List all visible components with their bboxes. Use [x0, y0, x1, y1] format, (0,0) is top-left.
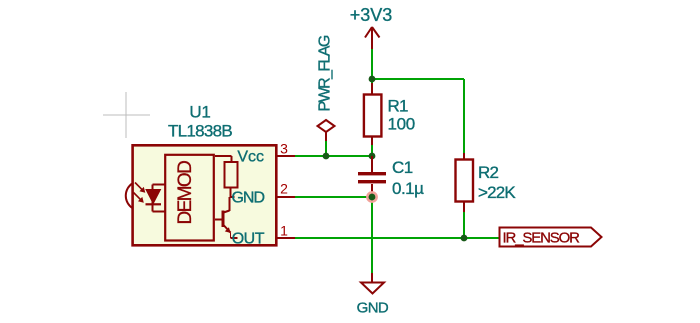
wire GND row pin2 to C1 bottom	[295, 196, 372, 198]
pin 1 OUT	[232, 223, 295, 248]
svg-text:R2: R2	[478, 163, 498, 182]
photodiode lens arc	[126, 183, 133, 208]
svg-text:IR_SENSOR: IR_SENSOR	[503, 230, 581, 247]
svg-text:3: 3	[280, 141, 288, 157]
wire +3V3 stem to junction	[371, 48, 373, 83]
svg-text:1: 1	[280, 223, 288, 239]
resistor R1	[364, 83, 415, 145]
svg-text:2: 2	[280, 181, 288, 197]
highlighted junction at C1/GND node	[367, 192, 376, 201]
svg-text:OUT: OUT	[232, 231, 265, 248]
wire R1 bottom to Vcc node	[371, 144, 373, 156]
svg-text:100: 100	[388, 115, 415, 134]
power symbol +3V3	[365, 27, 380, 49]
transistor Q internal	[215, 197, 238, 238]
wire Vcc row pin3 to C1 column	[295, 155, 372, 157]
junction at R2/OUT node	[461, 235, 468, 242]
pin 3 Vcc	[237, 141, 295, 166]
ground symbol GND	[361, 273, 384, 294]
junction at PWR_FLAG attach	[323, 153, 330, 160]
wire R2 top vertical	[463, 79, 465, 154]
wire R2 bottom to OUT row	[463, 211, 465, 238]
svg-text:PWR_FLAG: PWR_FLAG	[317, 35, 334, 111]
wire C1 bottom to GND symbol	[371, 197, 373, 274]
svg-text:0.1µ: 0.1µ	[392, 179, 424, 198]
svg-text:+3V3: +3V3	[350, 5, 393, 25]
resistor R2	[456, 153, 517, 212]
photodiode D	[146, 185, 165, 212]
wire PWR_FLAG stem	[325, 140, 327, 156]
DEMOD box	[165, 155, 214, 241]
svg-text:>22K: >22K	[478, 183, 516, 202]
wire OUT row pin1 to IR_SENSOR label	[295, 237, 499, 239]
svg-text:R1: R1	[388, 97, 408, 116]
svg-text:Vcc: Vcc	[237, 149, 264, 166]
svg-text:TL1838B: TL1838B	[168, 122, 232, 141]
hierarchical label IR_SENSOR	[500, 228, 602, 247]
pin 2 GND	[231, 181, 295, 207]
svg-text:C1: C1	[392, 158, 413, 177]
power flag PWR_FLAG	[318, 120, 335, 141]
svg-text:GND: GND	[231, 190, 264, 207]
wire top horizontal to R2	[372, 78, 464, 80]
svg-text:GND: GND	[357, 299, 389, 316]
junction at +3V3 node	[369, 76, 376, 83]
svg-text:U1: U1	[189, 103, 210, 122]
junction at Vcc node	[369, 153, 376, 160]
IR arrows into photodiode	[134, 183, 146, 203]
IC U1 outer body	[133, 145, 277, 245]
internal resistor	[215, 156, 238, 197]
cursor crosshair	[103, 92, 150, 138]
capacitor C1	[358, 156, 424, 198]
svg-text:DEMOD: DEMOD	[175, 161, 196, 225]
